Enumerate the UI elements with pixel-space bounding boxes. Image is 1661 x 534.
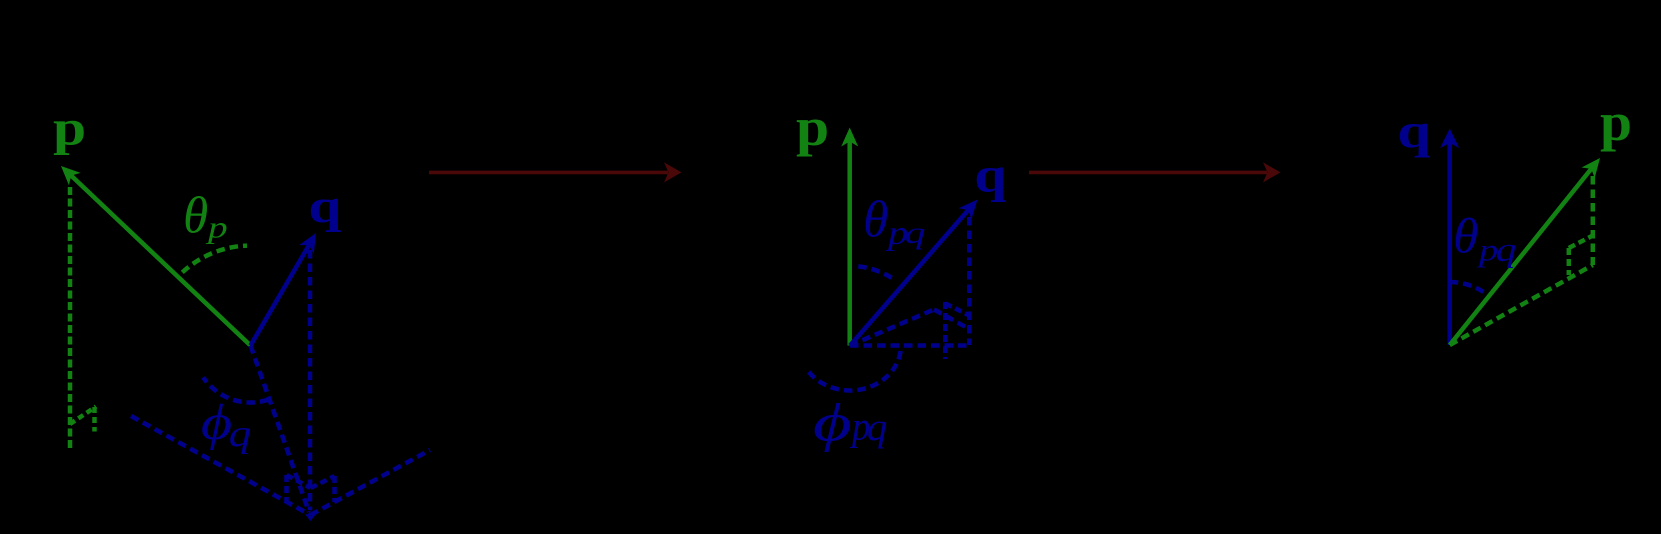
svg-text:p: p xyxy=(796,97,829,157)
svg-text:q: q xyxy=(1397,104,1430,158)
svg-text:θ: θ xyxy=(1453,209,1478,264)
svg-text:θ: θ xyxy=(183,187,208,245)
svg-text:q: q xyxy=(308,180,341,233)
svg-text:ϕ: ϕ xyxy=(813,394,852,453)
svg-text:ϕ: ϕ xyxy=(201,395,232,451)
svg-text:θ: θ xyxy=(863,191,888,248)
svg-text:q: q xyxy=(867,405,887,449)
svg-text:p: p xyxy=(1600,92,1632,152)
svg-text:q: q xyxy=(229,413,252,455)
svg-text:q: q xyxy=(1496,232,1517,269)
svg-text:q: q xyxy=(974,147,1006,203)
svg-text:q: q xyxy=(905,215,926,250)
svg-text:p: p xyxy=(205,210,228,245)
svg-text:p: p xyxy=(53,100,86,155)
